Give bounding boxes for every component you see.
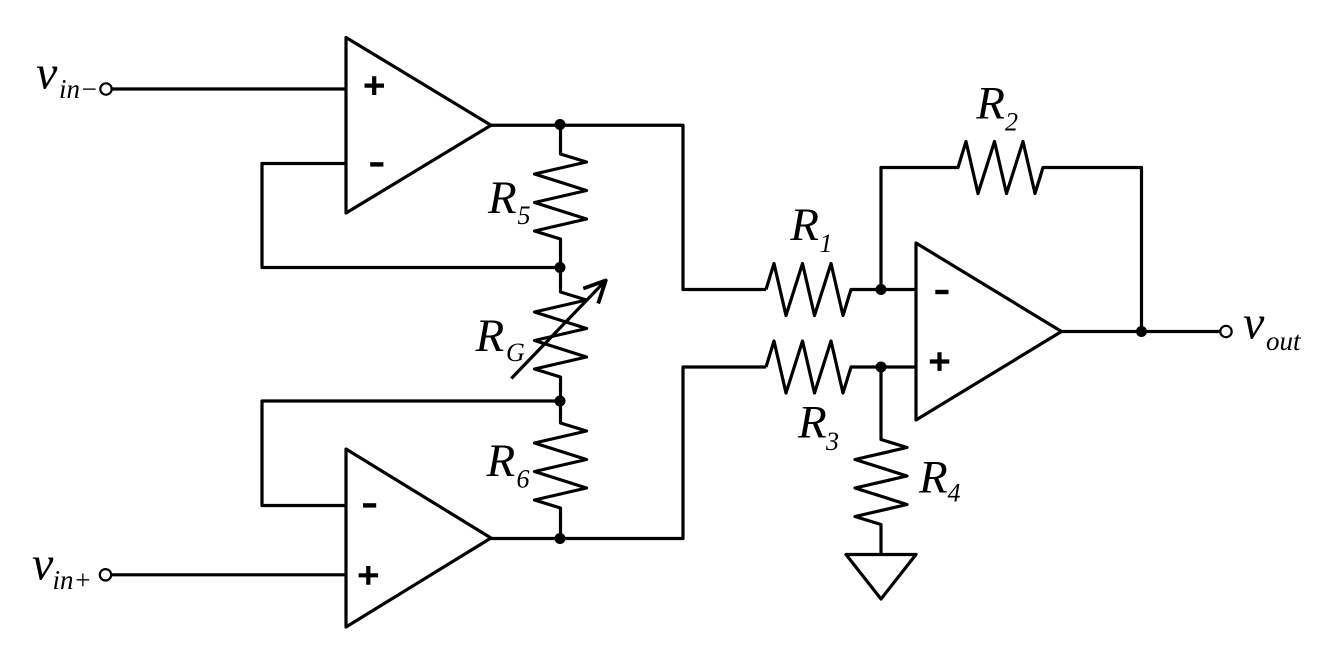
svg-text:6: 6 [517,465,530,494]
resistor R4 [855,367,907,555]
wire v_in+ input to U2 + [112,573,346,576]
svg-text:R: R [975,78,1005,130]
plus sign U3 [930,352,950,371]
junction node U2 out [555,533,566,544]
svg-text:4: 4 [948,479,961,508]
wire U1 feedback (output node to - input) [262,164,561,268]
svg-text:v: v [36,47,58,100]
junction node R5/RG [555,262,566,273]
plus sign U2 [359,566,379,585]
svg-text:R: R [797,397,827,449]
resistor RG (variable) [535,268,587,402]
svg-text:R: R [486,435,516,487]
svg-text:v: v [32,538,54,591]
svg-text:out: out [1266,326,1302,356]
terminal v_out [1220,326,1231,337]
junction node U3 non-inverting input [876,362,887,373]
op-amp U3 (right) [916,243,1062,420]
plus sign U1 [365,76,385,95]
svg-text:3: 3 [825,427,839,456]
terminal v_in+ [100,569,111,580]
junction node U1 out [555,119,566,130]
resistor R2 with feedback loop wires [881,142,1142,332]
resistor R1 [766,264,916,316]
arrow of RG [511,280,606,378]
wire U1 output to R1 [491,125,766,289]
terminal v_in- [100,83,111,94]
svg-text:v: v [1243,297,1265,350]
wire U3 output to v_out [1062,330,1220,333]
svg-text:2: 2 [1005,107,1018,136]
wire v_in- input to U1 + [112,87,346,90]
svg-text:R: R [918,451,948,503]
wire U2 output to R3 [491,367,766,539]
junction node U3 inverting input [876,284,887,295]
junction node RG/R6 [555,396,566,407]
minus sign U1 [370,162,383,166]
svg-text:in+: in+ [53,565,92,595]
ground [846,555,916,600]
junction node output [1136,326,1147,337]
wire U2 feedback (output node to - input) [262,401,561,506]
svg-text:in−: in− [59,74,98,104]
op-amp U1 (top left) [346,38,491,214]
svg-text:1: 1 [820,229,833,258]
resistor R6 [535,401,587,539]
minus sign U2 [363,503,376,507]
svg-text:5: 5 [518,201,531,230]
svg-text:R: R [475,310,505,362]
resistor R5 [535,125,587,268]
svg-text:G: G [506,338,525,367]
op-amp U2 (bottom left) [346,449,491,627]
resistor R3 [766,341,916,393]
svg-text:R: R [487,172,517,224]
svg-text:R: R [789,199,819,251]
minus sign U3 [935,290,948,294]
